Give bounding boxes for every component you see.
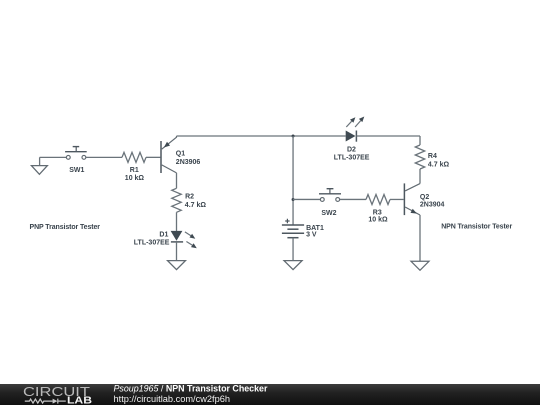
svg-text:Psoup1965 / NPN Transistor Che: Psoup1965 / NPN Transistor Checker xyxy=(114,383,268,393)
node junction SW2 branch xyxy=(292,198,295,201)
wire Q2 emitter to ground xyxy=(419,215,421,261)
wire SW1 to R1 xyxy=(86,156,122,158)
logo resistor-diode glyph xyxy=(25,399,66,404)
switch SW2 xyxy=(319,189,341,202)
resistor R4 xyxy=(415,145,424,169)
wire Q1 collector to R2 xyxy=(176,173,178,188)
transistor Q1 xyxy=(161,136,177,173)
transistor Q2 xyxy=(404,183,420,215)
wire top rail left segment xyxy=(177,135,346,137)
wire junction to SW2 xyxy=(293,198,320,200)
switch SW1 xyxy=(65,147,87,160)
wire R1 to Q1 base xyxy=(146,156,160,158)
LED D2 xyxy=(346,117,365,142)
resistor R3 xyxy=(366,194,390,204)
resistor R1 xyxy=(122,152,146,162)
battery BAT1 xyxy=(282,219,304,238)
svg-text:http://circuitlab.com/cw2fp6h: http://circuitlab.com/cw2fp6h xyxy=(114,394,231,404)
ground G4 (under Q2) xyxy=(411,261,429,270)
LED D1 xyxy=(171,231,197,248)
wire R3 to Q2 base xyxy=(390,198,404,200)
wire ground G1 to SW1 xyxy=(40,156,67,158)
ground G2 (under D1) xyxy=(168,261,186,270)
wire top rail right segment xyxy=(356,135,420,137)
resistor R2 xyxy=(172,188,181,212)
wire rail corner down to R4 xyxy=(419,136,421,145)
wire SW2 to R3 xyxy=(340,198,366,200)
wire D1 to ground xyxy=(176,242,178,261)
footer bar xyxy=(0,384,540,405)
wire rail junction down to battery xyxy=(292,136,294,225)
ground G3 (under battery) xyxy=(284,261,302,270)
ground G1 (left) xyxy=(31,157,47,174)
wire R2 to D1 xyxy=(176,212,178,231)
wire R4 to Q2 collector xyxy=(419,169,421,184)
node junction on rail xyxy=(292,135,295,138)
svg-text:LAB: LAB xyxy=(67,396,92,405)
wire battery to ground xyxy=(292,238,294,261)
